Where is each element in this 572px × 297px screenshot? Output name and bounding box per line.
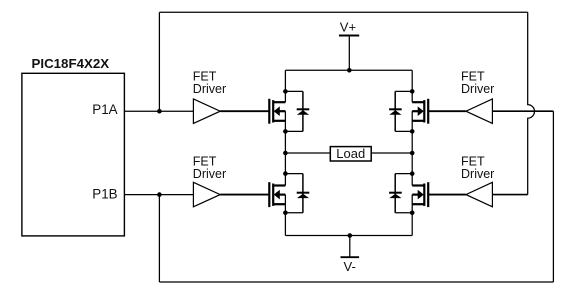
node Q4 drain (410, 171, 415, 176)
wire right riser from bottom run to top-right driver input (552, 111, 554, 282)
FET driver U5 label (461, 155, 494, 181)
FET driver U3 buffer (bottom-left) (193, 182, 220, 207)
FET driver U5 buffer (bottom-right, points left) (466, 182, 493, 207)
FET driver U2 label (193, 70, 226, 96)
wire top horizontal run (159, 11, 527, 13)
transistor Q1 (top-left NMOS) (269, 91, 285, 131)
wire into bottom-right driver input (492, 194, 527, 196)
wire P1B junction down to bottom run (158, 195, 160, 282)
power V- symbol (341, 236, 360, 274)
wire left bus Q3 source to bottom rail (284, 213, 286, 236)
load LOAD box (330, 146, 371, 161)
node load rail right (410, 151, 415, 156)
wire U3 output to Q3 gate (220, 194, 269, 196)
wire U4 output to Q2 gate (428, 110, 466, 112)
node Q1 drain (283, 89, 288, 94)
node V+ tap (347, 68, 352, 73)
wire left bus Q1 source to Q3 drain (284, 131, 286, 173)
transistor Q3 (bottom-left NMOS) (269, 174, 285, 213)
svg-text:P1B: P1B (92, 187, 117, 202)
wire P1A from U1 to driver input (125, 110, 194, 112)
node Q3 drain (283, 171, 288, 176)
wire bridge bottom rail (285, 235, 412, 237)
node Q1 source (283, 129, 288, 134)
node V- tap (348, 233, 353, 238)
node Q3 source (283, 211, 288, 216)
svg-text:Driver: Driver (193, 167, 226, 181)
node Q2 source (410, 129, 415, 134)
wire into top-right driver input (492, 110, 553, 112)
wire right drop from top run, hop over row-A wire, to bottom-right driver input (528, 12, 535, 194)
wire load rail left (285, 152, 330, 154)
FET driver U2 buffer (top-left) (193, 99, 220, 124)
diode D3 (body diode of Q3) (285, 174, 309, 213)
svg-text:Load: Load (336, 146, 365, 161)
svg-text:Driver: Driver (193, 82, 226, 96)
svg-text:V-: V- (344, 259, 356, 274)
transistor Q2 (top-right NMOS, mirrored) (412, 91, 428, 131)
FET driver U3 label (193, 155, 226, 181)
wire U5 output to Q4 gate (428, 194, 466, 196)
svg-text:Driver: Driver (461, 167, 494, 181)
wire right bus top rail to Q2 drain (411, 70, 413, 91)
FET driver U4 label (461, 70, 494, 96)
diode D4 (body diode of Q4) (389, 174, 412, 213)
node Q4 source (410, 211, 415, 216)
wire bottom horizontal run (159, 281, 553, 283)
wire U2 output to Q1 gate (220, 110, 269, 112)
transistor Q4 (bottom-right NMOS, mirrored) (412, 174, 428, 213)
svg-text:P1A: P1A (92, 102, 117, 117)
FET driver U4 buffer (top-right, points left) (466, 99, 493, 124)
wire P1A junction up to top run (158, 12, 160, 111)
wire right bus Q4 source to bottom rail (411, 213, 413, 236)
node Q2 drain (410, 89, 415, 94)
wire left bus top rail to Q1 drain (284, 70, 286, 91)
wire P1B from U1 to driver input (125, 194, 194, 196)
svg-text:Driver: Driver (461, 82, 494, 96)
node P1A junction (157, 109, 162, 114)
diode D1 (body diode of Q1) (285, 91, 309, 131)
wire load rail right (371, 152, 412, 154)
node load rail left (283, 151, 288, 156)
power V+ symbol (339, 20, 359, 71)
node P1B junction (157, 192, 162, 197)
wire right bus Q2 source to Q4 drain (411, 131, 413, 173)
svg-text:PIC18F4X2X: PIC18F4X2X (32, 56, 110, 71)
wire bridge top rail (285, 69, 412, 71)
svg-text:V+: V+ (340, 20, 356, 35)
diode D2 (body diode of Q2) (389, 91, 412, 131)
microcontroller U1 PIC18F4X2X box (22, 56, 125, 236)
